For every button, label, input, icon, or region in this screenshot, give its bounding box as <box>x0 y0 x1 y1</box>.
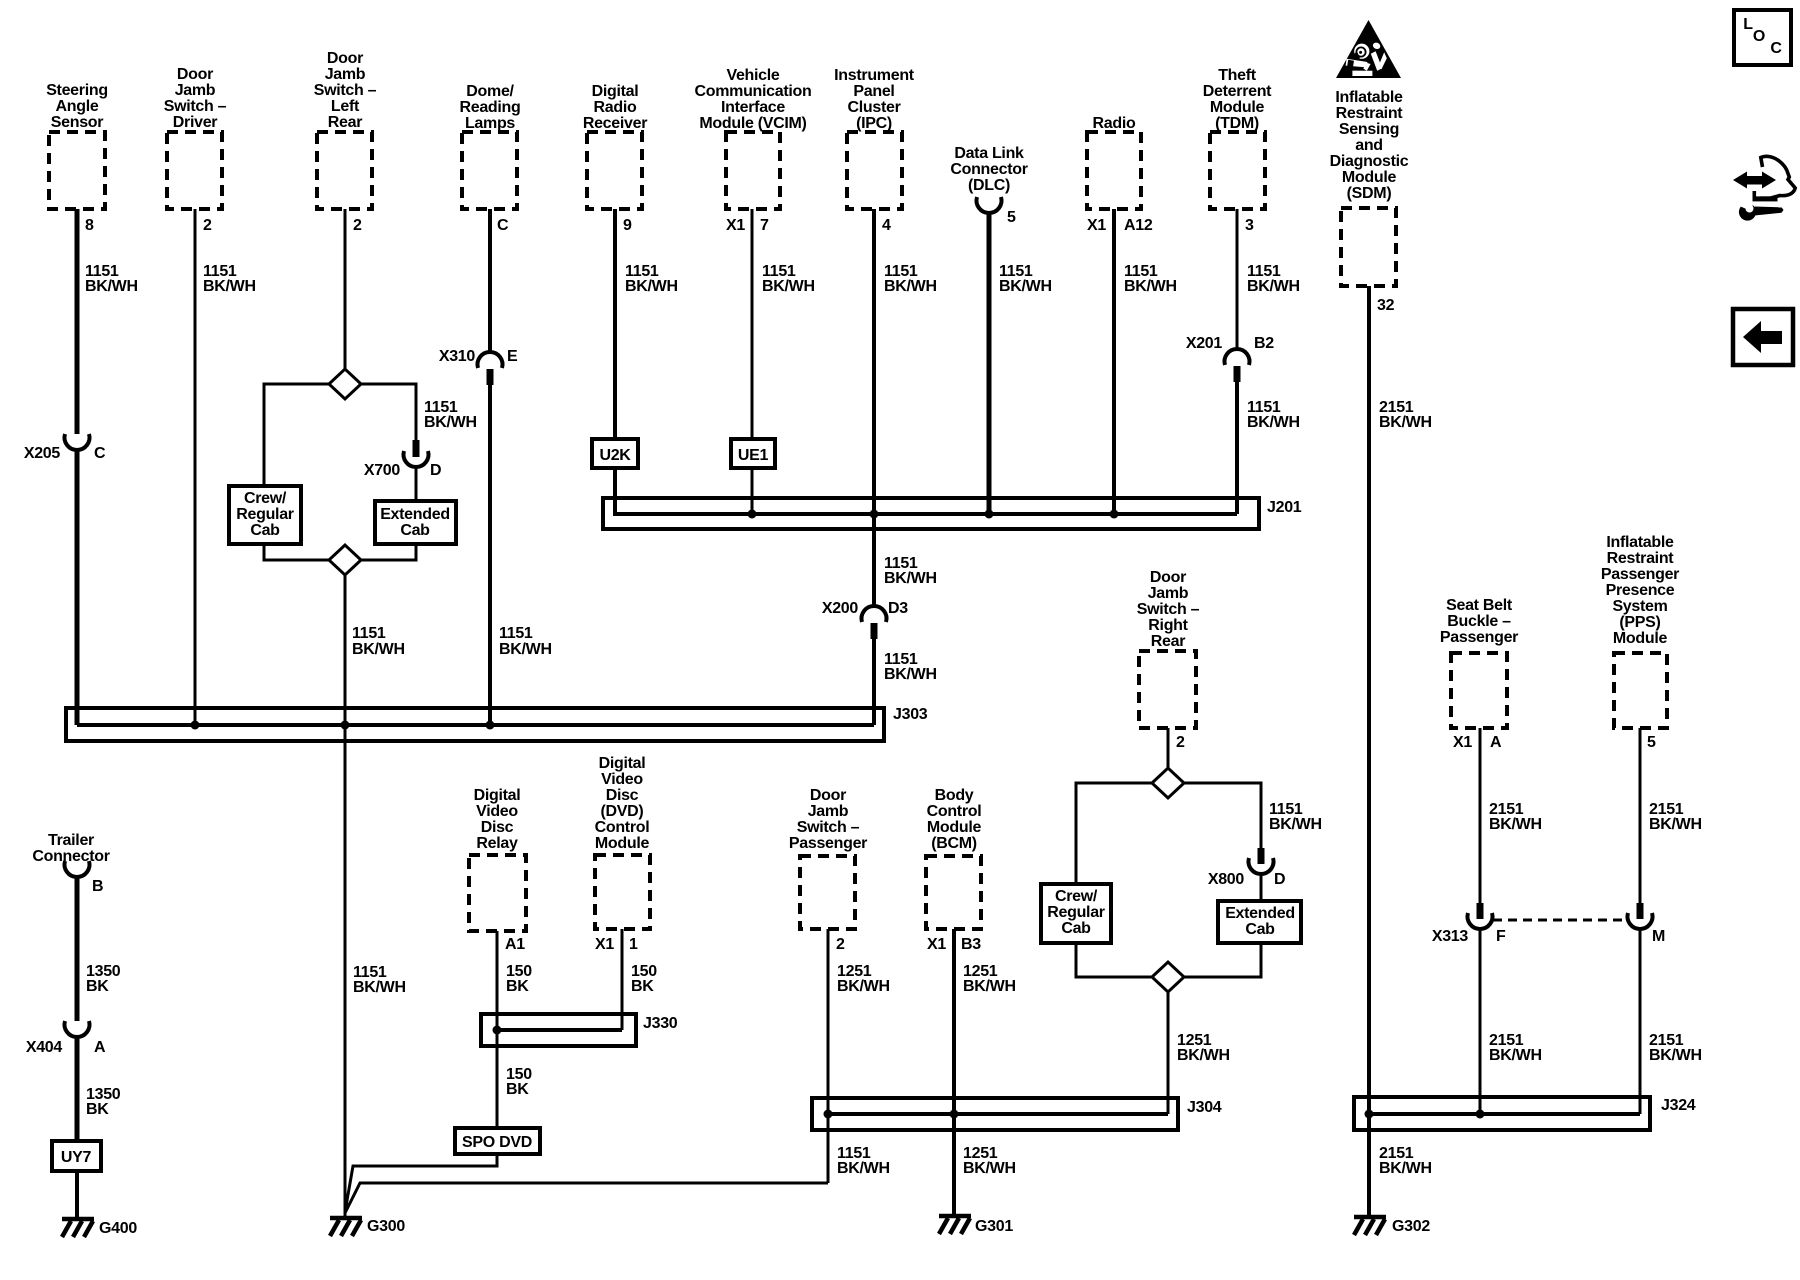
svg-text:2: 2 <box>353 217 362 234</box>
svg-text:BK/WH: BK/WH <box>424 414 477 431</box>
svg-text:Body: Body <box>935 787 974 804</box>
svg-text:G301: G301 <box>975 1218 1013 1235</box>
svg-text:8: 8 <box>85 217 94 234</box>
svg-text:BK/WH: BK/WH <box>999 278 1052 295</box>
junction dot J324/seat belt <box>1476 1110 1485 1119</box>
svg-text:X313: X313 <box>1432 928 1469 945</box>
svg-text:Switch –: Switch – <box>164 98 227 115</box>
svg-text:BK/WH: BK/WH <box>353 979 406 996</box>
svg-text:Presence: Presence <box>1606 582 1675 599</box>
svg-text:D: D <box>430 462 441 479</box>
svg-text:Video: Video <box>601 771 643 788</box>
module: Door Jamb Switch - Passenger <box>789 787 867 929</box>
svg-text:Cluster: Cluster <box>847 99 900 116</box>
wire label 1350 BK (below X404) <box>86 1086 121 1118</box>
wire label 1151 BK/WH (steering wire) <box>85 263 138 295</box>
legend icon: left arrow box <box>1733 309 1793 365</box>
svg-text:J324: J324 <box>1661 1097 1696 1114</box>
option box Crew/Regular Cab (left) <box>229 486 301 544</box>
junction dot J304/BCM <box>950 1110 959 1119</box>
module: Theft Deterrent Module (TDM) <box>1203 67 1272 209</box>
svg-text:5: 5 <box>1007 209 1016 226</box>
wire label 1151 BK/WH (radio wire) <box>1124 263 1177 295</box>
junction dot J201/UE1 <box>748 510 757 519</box>
wire from Crew/Regular Cab to bottom diamond <box>264 544 329 560</box>
svg-text:BK/WH: BK/WH <box>1649 816 1702 833</box>
svg-text:Jamb: Jamb <box>1148 585 1189 602</box>
wire 1151 BK/WH from Digital Radio Receiver to U2K option box <box>613 209 617 439</box>
label J330 <box>643 1015 678 1032</box>
svg-text:Right: Right <box>1148 617 1188 634</box>
svg-text:BK: BK <box>506 978 529 995</box>
wire branch to Extended Cab via X800 <box>1184 783 1261 848</box>
svg-text:B3: B3 <box>961 936 981 953</box>
option box UY7 <box>52 1141 101 1171</box>
svg-text:1: 1 <box>629 936 638 953</box>
pin 32 of SDM <box>1377 297 1395 314</box>
svg-text:Deterrent: Deterrent <box>1203 83 1272 100</box>
svg-text:7: 7 <box>760 217 769 234</box>
branch diamond (top, left cab option) <box>329 369 361 399</box>
wire 1251 BK/WH from Door Jamb Switch - Passenger through J304 <box>827 929 830 1183</box>
wire label 1151 BK/WH (below J201) <box>884 555 937 587</box>
svg-text:1151: 1151 <box>352 625 386 642</box>
svg-text:BK/WH: BK/WH <box>1269 816 1322 833</box>
module: Digital Video Disc (DVD) Control Module <box>595 755 650 929</box>
pin 2 of Door Jamb Switch - Right Rear <box>1176 734 1185 751</box>
svg-text:System: System <box>1612 598 1667 615</box>
pin 2 of Door Jamb Switch - Driver <box>203 217 212 234</box>
svg-text:2: 2 <box>1176 734 1185 751</box>
svg-text:9: 9 <box>623 217 632 234</box>
legend icon: hand with double arrow and wrench <box>1733 156 1795 220</box>
dashed connector link X313 to M <box>1493 919 1628 922</box>
svg-text:J303: J303 <box>893 706 928 723</box>
svg-text:X205: X205 <box>24 445 61 462</box>
wire 1350 BK from X404 to UY7 <box>75 1036 80 1141</box>
svg-text:Communication: Communication <box>695 83 812 100</box>
wire from Extended Cab to bottom diamond <box>361 544 416 560</box>
wire from SPO DVD to ground G300 <box>345 1154 497 1212</box>
svg-text:Digital: Digital <box>474 787 521 804</box>
svg-text:B: B <box>92 878 103 895</box>
svg-text:Door: Door <box>810 787 846 804</box>
wire from UY7 to ground G400 <box>75 1171 79 1218</box>
svg-text:BK/WH: BK/WH <box>837 1160 890 1177</box>
svg-text:Door: Door <box>177 66 213 83</box>
wire 1151 BK/WH from IPC to J201 <box>872 209 876 514</box>
svg-text:A: A <box>1490 734 1502 751</box>
svg-text:Panel: Panel <box>853 83 894 100</box>
svg-text:Disc: Disc <box>481 819 514 836</box>
wire 1151 BK/WH from TDM to connector X201 <box>1236 209 1239 350</box>
svg-text:Inflatable: Inflatable <box>1606 534 1674 551</box>
connector X310 pin E <box>439 348 518 385</box>
wire from UE1 to J201 splice <box>751 468 754 514</box>
wire from X200 to J303 <box>872 639 876 725</box>
svg-text:Angle: Angle <box>56 98 99 115</box>
svg-text:X1: X1 <box>595 936 614 953</box>
label J303 <box>893 706 928 723</box>
svg-text:Cab: Cab <box>1245 921 1275 938</box>
wire 1151 BK/WH from Steering Angle Sensor pin 8 to connector X205 <box>75 209 80 434</box>
wire label 1151 BK/WH (left rear wire below J303) <box>353 964 406 996</box>
wire label 2151 BK/WH (seat belt wire below X313) <box>1489 1032 1542 1064</box>
module: Vehicle Communication Interface Module (VCIM) <box>695 67 812 209</box>
svg-text:Rear: Rear <box>328 114 362 131</box>
svg-text:Jamb: Jamb <box>325 66 366 83</box>
connector X313 pin F <box>1432 903 1506 945</box>
svg-text:Radio: Radio <box>594 99 637 116</box>
module: Radio <box>1087 115 1141 209</box>
svg-text:BK/WH: BK/WH <box>203 278 256 295</box>
wire label 150 BK (DVD control wire) <box>631 963 657 995</box>
splice pack J330 <box>481 1014 636 1046</box>
wire label 2151 BK/WH (PPS wire) <box>1649 801 1702 833</box>
svg-text:Inflatable: Inflatable <box>1335 89 1403 106</box>
svg-text:Connector: Connector <box>32 848 109 865</box>
wire label 1151 BK/WH (driver switch wire) <box>203 263 256 295</box>
module: Digital Video Disc Relay <box>469 787 526 931</box>
svg-text:Module: Module <box>1613 630 1668 647</box>
svg-text:BK/WH: BK/WH <box>1247 414 1300 431</box>
svg-text:and: and <box>1355 137 1383 154</box>
svg-text:Crew/: Crew/ <box>244 490 287 507</box>
svg-text:B2: B2 <box>1254 335 1274 352</box>
ground G300 <box>330 1218 405 1236</box>
wire 150 BK from DVD Relay through J330 to SPO DVD <box>496 931 499 1128</box>
svg-text:BK/WH: BK/WH <box>1124 278 1177 295</box>
svg-text:BK/WH: BK/WH <box>1489 1047 1542 1064</box>
wire 1251 BK/WH from BCM through J304 to ground G301 <box>952 929 956 1214</box>
wire 1151 BK/WH from J201 to connector X200 <box>872 514 876 607</box>
svg-text:Radio: Radio <box>1093 115 1136 132</box>
svg-text:Module: Module <box>595 835 650 852</box>
svg-text:X800: X800 <box>1208 871 1245 888</box>
svg-text:Seat Belt: Seat Belt <box>1446 597 1513 614</box>
module: Dome/Reading Lamps <box>459 83 520 209</box>
svg-text:X200: X200 <box>822 600 859 617</box>
svg-text:Jamb: Jamb <box>808 803 849 820</box>
svg-text:X1: X1 <box>1453 734 1472 751</box>
wire label 1151 BK/WH (left rear wire above J303) <box>352 625 405 658</box>
wire from connector M to J324 <box>1639 928 1642 1114</box>
module: Body Control Module (BCM) <box>926 787 981 929</box>
svg-text:BK/WH: BK/WH <box>1379 1160 1432 1177</box>
svg-text:BK/WH: BK/WH <box>963 978 1016 995</box>
svg-text:C: C <box>497 217 509 234</box>
svg-text:C: C <box>1770 40 1782 57</box>
wire label 1151 BK/WH (below J304 to G300) <box>837 1145 890 1177</box>
svg-text:Vehicle: Vehicle <box>726 67 779 84</box>
wire 1251 BK/WH from branch diamond to J304 <box>1167 992 1170 1114</box>
svg-text:X404: X404 <box>26 1039 63 1056</box>
splice pack J324 <box>1354 1097 1650 1130</box>
svg-text:2: 2 <box>836 936 845 953</box>
svg-text:BK: BK <box>86 1101 109 1118</box>
svg-text:Module (VCIM): Module (VCIM) <box>699 115 806 132</box>
svg-text:1151: 1151 <box>499 625 533 642</box>
svg-text:Cab: Cab <box>400 522 430 539</box>
wire label 1251 BK/WH (below J304) <box>963 1145 1016 1177</box>
wire 1151 BK/WH from branch diamond to J303 <box>344 575 347 725</box>
wire label 1151 BK/WH (DLC wire) <box>999 263 1052 295</box>
svg-text:BK/WH: BK/WH <box>625 278 678 295</box>
svg-text:Sensor: Sensor <box>51 114 104 131</box>
module: Door Jamb Switch - Left Rear <box>314 50 377 209</box>
svg-text:D: D <box>1274 871 1285 888</box>
svg-text:Switch –: Switch – <box>797 819 860 836</box>
pins X1 / B3 of BCM <box>927 936 981 953</box>
svg-text:BK/WH: BK/WH <box>1177 1047 1230 1064</box>
svg-text:BK/WH: BK/WH <box>1649 1047 1702 1064</box>
wire label 1151 BK/WH (IPC wire) <box>884 263 937 295</box>
pin 5 of PPS Module <box>1647 734 1656 751</box>
svg-text:Cab: Cab <box>250 522 280 539</box>
svg-text:Steering: Steering <box>46 82 108 99</box>
pins X1 / 1 of DVD Control Module <box>595 936 638 953</box>
wire label 1151 BK/WH (dome lamps wire) <box>499 625 552 658</box>
connector X700 pin D <box>364 440 441 479</box>
option box Extended Cab (left) <box>375 501 456 544</box>
module: Digital Radio Receiver <box>583 83 647 209</box>
splice pack J304 <box>812 1098 1178 1130</box>
svg-text:Switch –: Switch – <box>1137 601 1200 618</box>
svg-text:Rear: Rear <box>1151 633 1185 650</box>
splice pack J303 <box>66 708 884 741</box>
svg-text:Passenger: Passenger <box>1440 629 1518 646</box>
wire 1350 BK from Trailer Connector to X404 <box>75 876 80 1021</box>
svg-text:Restraint: Restraint <box>1607 550 1675 567</box>
junction dot J303/dome lamps <box>486 721 495 730</box>
svg-text:BK: BK <box>506 1081 529 1098</box>
pin 8 of Steering Angle Sensor <box>85 217 94 234</box>
svg-text:Sensing: Sensing <box>1339 121 1399 138</box>
svg-text:X1: X1 <box>726 217 745 234</box>
svg-text:Digital: Digital <box>599 755 646 772</box>
svg-text:Door: Door <box>327 50 363 67</box>
wire 1151 BK/WH from Radio to J201 <box>1112 209 1116 514</box>
junction dot J303/left rear switch <box>341 721 350 730</box>
junction dot J304/passenger switch <box>824 1110 833 1119</box>
svg-text:(DLC): (DLC) <box>968 177 1010 194</box>
wire from U2K into J201 <box>613 468 617 516</box>
ground G302 <box>1354 1217 1430 1235</box>
svg-text:Interface: Interface <box>721 99 785 116</box>
pins X1 / A12 of Radio <box>1087 217 1153 234</box>
junction dot J303/driver switch <box>191 721 200 730</box>
option box U2K <box>592 439 638 468</box>
svg-text:(TDM): (TDM) <box>1215 115 1259 132</box>
module: Door Jamb Switch - Driver <box>164 66 227 209</box>
svg-text:5: 5 <box>1647 734 1656 751</box>
wire label 1251 BK/WH (passenger switch wire) <box>837 963 890 995</box>
label J304 <box>1187 1099 1222 1116</box>
svg-text:Driver: Driver <box>173 114 218 131</box>
svg-text:Regular: Regular <box>1047 904 1105 921</box>
wire label 1151 BK/WH (above J303 right end) <box>884 651 937 683</box>
svg-text:C: C <box>94 445 106 462</box>
connector X201 pin B2 <box>1186 335 1274 382</box>
svg-text:Trailer: Trailer <box>48 832 94 849</box>
svg-text:UE1: UE1 <box>738 447 769 464</box>
svg-text:X1: X1 <box>927 936 946 953</box>
svg-text:BK/WH: BK/WH <box>499 641 552 658</box>
junction dot J201/DLC <box>985 510 994 519</box>
svg-text:G400: G400 <box>99 1220 137 1237</box>
wire label 1251 BK/WH (BCM wire) <box>963 963 1016 995</box>
pin 9 of Digital Radio Receiver <box>623 217 632 234</box>
wire from Door Jamb Switch - Right Rear to branch diamond <box>1167 728 1170 769</box>
svg-text:BK/WH: BK/WH <box>1489 816 1542 833</box>
wire label 1151 BK/WH (extended cab branch) <box>424 399 477 431</box>
module: Instrument Panel Cluster (IPC) <box>834 67 915 209</box>
svg-text:J201: J201 <box>1267 499 1302 516</box>
svg-text:Digital: Digital <box>592 83 639 100</box>
svg-text:BK/WH: BK/WH <box>837 978 890 995</box>
svg-text:(BCM): (BCM) <box>931 835 977 852</box>
junction dot J201/Radio <box>1110 510 1119 519</box>
wire 1151 BK/WH from Dome/Reading Lamps to connector X310 <box>488 209 492 353</box>
wire from Door Jamb Switch - Left Rear to cab-option branch diamond <box>344 209 347 370</box>
svg-text:Jamb: Jamb <box>175 82 216 99</box>
wire from X205 to splice pack J303 <box>75 449 80 725</box>
option box UE1 <box>731 439 775 468</box>
svg-text:J304: J304 <box>1187 1099 1222 1116</box>
svg-text:Lamps: Lamps <box>465 115 515 132</box>
svg-text:A12: A12 <box>1124 217 1153 234</box>
svg-text:(IPC): (IPC) <box>856 115 892 132</box>
svg-text:BK/WH: BK/WH <box>884 570 937 587</box>
wire label 2151 BK/WH (seat belt wire) <box>1489 801 1542 833</box>
junction dot J330/DVD relay <box>493 1026 502 1035</box>
svg-text:Crew/: Crew/ <box>1055 888 1098 905</box>
svg-text:E: E <box>507 348 518 365</box>
pins X1 / A of Seat Belt Buckle <box>1453 734 1502 751</box>
svg-text:Module: Module <box>1342 169 1397 186</box>
svg-text:U2K: U2K <box>599 447 631 464</box>
wire 2151 BK/WH from Seat Belt Buckle to connector X313 <box>1479 728 1482 903</box>
svg-text:BK/WH: BK/WH <box>884 278 937 295</box>
module: Inflatable Restraint Passenger Presence System (PPS) Module <box>1601 534 1679 728</box>
SRS warning triangle <box>1336 20 1401 78</box>
label J324 <box>1661 1097 1696 1114</box>
wire 1151 BK/WH from DLC to J201 <box>987 212 992 514</box>
wire from J324 to ground G302 <box>1367 1114 1371 1216</box>
connector X200 pin D3 <box>822 600 908 639</box>
pin 2 of Door Jamb Switch - Left Rear <box>353 217 362 234</box>
svg-text:2: 2 <box>203 217 212 234</box>
wire from X700 to Extended Cab box <box>415 466 418 501</box>
pin 2 of Door Jamb Switch - Passenger <box>836 936 845 953</box>
wire branch to Crew/Regular Cab (left) <box>264 384 329 486</box>
svg-text:Dome/: Dome/ <box>466 83 514 100</box>
svg-text:Switch –: Switch – <box>314 82 377 99</box>
svg-text:(SDM): (SDM) <box>1347 185 1392 202</box>
svg-text:J330: J330 <box>643 1015 678 1032</box>
svg-text:Left: Left <box>331 98 360 115</box>
pin B of Trailer Connector <box>92 878 103 895</box>
svg-text:Extended: Extended <box>380 506 450 523</box>
wire label 1151 BK/WH (below X201) <box>1247 399 1300 431</box>
svg-text:BK/WH: BK/WH <box>884 666 937 683</box>
connector pin M <box>1628 903 1666 945</box>
svg-text:L: L <box>1743 16 1753 33</box>
wire branch to Crew/Regular Cab (right) <box>1076 783 1152 884</box>
pin C of Dome/Reading Lamps <box>497 217 509 234</box>
wire 1151 BK/WH from J304 to ground G300 <box>345 1183 828 1213</box>
svg-text:(PPS): (PPS) <box>1619 614 1660 631</box>
option box Extended Cab (right) <box>1218 901 1301 943</box>
svg-text:BK/WH: BK/WH <box>352 641 405 658</box>
pin A1 of DVD Relay <box>505 936 525 953</box>
ground G301 <box>939 1216 1013 1235</box>
option box SPO DVD <box>455 1128 540 1154</box>
svg-text:Video: Video <box>476 803 518 820</box>
pin 3 of TDM <box>1245 217 1254 234</box>
svg-text:D3: D3 <box>888 600 908 617</box>
svg-text:BK/WH: BK/WH <box>85 278 138 295</box>
wire from X201 to J201 right end <box>1235 382 1239 514</box>
svg-text:Restraint: Restraint <box>1336 105 1404 122</box>
wire label 2151 BK/WH (SDM wire) <box>1379 399 1432 431</box>
svg-text:Disc: Disc <box>606 787 639 804</box>
module: Door Jamb Switch - Right Rear <box>1137 569 1200 728</box>
svg-text:Reading: Reading <box>459 99 520 116</box>
svg-text:Regular: Regular <box>236 506 294 523</box>
svg-text:Receiver: Receiver <box>583 115 647 132</box>
svg-text:Relay: Relay <box>476 835 518 852</box>
junction dot J201/IPC <box>870 510 879 519</box>
svg-text:X1: X1 <box>1087 217 1106 234</box>
option box Crew/Regular Cab (right) <box>1041 884 1111 943</box>
wire branch to Extended Cab via X700 <box>361 384 416 440</box>
wire from Extended Cab (right) to bottom diamond <box>1184 943 1261 977</box>
wire 2151 BK/WH from PPS Module to connector M <box>1639 728 1642 903</box>
svg-text:SPO DVD: SPO DVD <box>462 1134 532 1151</box>
wire from X310 to J303 <box>488 385 492 725</box>
branch diamond (top, right cab option) <box>1152 768 1184 798</box>
junction dot J324/SDM <box>1365 1110 1374 1119</box>
wire label 2151 BK/WH (PPS wire below M) <box>1649 1032 1702 1064</box>
svg-text:BK/WH: BK/WH <box>1247 278 1300 295</box>
svg-text:Control: Control <box>595 819 650 836</box>
wire from X800 to Extended Cab (right) <box>1260 873 1263 901</box>
label J201 <box>1267 499 1302 516</box>
connector X404 pin A <box>26 1021 106 1056</box>
svg-text:Instrument: Instrument <box>834 67 915 84</box>
svg-text:Door: Door <box>1150 569 1186 586</box>
svg-text:A: A <box>94 1039 106 1056</box>
svg-text:BK: BK <box>631 978 654 995</box>
wire label 1251 BK/WH (right rear wire) <box>1177 1032 1230 1064</box>
svg-text:BK/WH: BK/WH <box>762 278 815 295</box>
svg-text:BK/WH: BK/WH <box>963 1160 1016 1177</box>
svg-text:Extended: Extended <box>1225 905 1295 922</box>
wire from Crew/Regular Cab (right) to bottom diamond <box>1076 943 1152 977</box>
module: Seat Belt Buckle - Passenger <box>1440 597 1518 728</box>
connector: Trailer Connector <box>32 832 109 877</box>
wire label 150 BK (below J330) <box>506 1066 532 1098</box>
svg-text:X700: X700 <box>364 462 401 479</box>
wire 1151 BK/WH from VCIM to UE1 option box <box>751 209 754 439</box>
branch diamond (bottom, right cab option) <box>1152 962 1184 992</box>
wire 1151 BK/WH from Door Jamb Switch - Driver to J303 <box>194 209 197 725</box>
svg-text:Cab: Cab <box>1061 920 1091 937</box>
wire label 1151 BK/WH (digital radio wire) <box>625 263 678 295</box>
svg-text:(DVD): (DVD) <box>601 803 644 820</box>
svg-text:Passenger: Passenger <box>789 835 867 852</box>
